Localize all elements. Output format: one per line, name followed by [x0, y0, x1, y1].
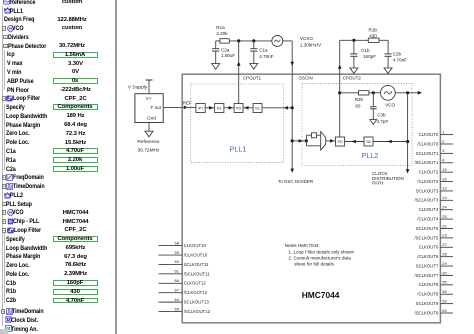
node feedback junction [406, 140, 409, 143]
block IP1 [196, 104, 205, 113]
mux selector [321, 132, 326, 151]
svg-text:SCLKOUT13: SCLKOUT13 [184, 300, 210, 305]
ground C2b [384, 68, 392, 74]
svg-text:CLKOUT12: CLKOUT12 [184, 281, 207, 286]
svg-text:V Supply: V Supply [128, 84, 148, 90]
svg-text:SCLKOUT3: SCLKOUT3 [416, 188, 439, 193]
arrow mux to PD2 [330, 139, 334, 143]
pin 14 /SCLKOUT3 [415, 195, 453, 203]
pin 24 CLKOUT4 [419, 205, 453, 213]
block N2 [364, 137, 373, 146]
block divider R2 [312, 133, 317, 138]
svg-text:1. Loop Filter details only sh: 1. Loop Filter details only shown [288, 249, 354, 254]
svg-text:29: 29 [442, 261, 447, 266]
svg-text:C2a: C2a [221, 47, 230, 52]
arrow into REF pin [184, 106, 188, 110]
arrow into N2 [388, 140, 392, 144]
pin 29 SCLKOUT7 [416, 261, 453, 269]
block PD2 [336, 137, 345, 146]
svg-text:R1b: R1b [369, 27, 378, 32]
wire REF to IP1 [184, 106, 196, 108]
svg-text:430: 430 [369, 33, 377, 38]
capacitor C2a [212, 41, 219, 64]
svg-text:/SCLKOUT9: /SCLKOUT9 [415, 310, 439, 315]
svg-text:67: 67 [175, 288, 180, 293]
node CPOUT1 junction [237, 39, 240, 42]
wire N2 to PD2 [345, 141, 364, 143]
capacitor C2b [385, 40, 392, 68]
svg-text:PATH: PATH [372, 181, 383, 186]
svg-text:CLKOUT4: CLKOUT4 [419, 207, 439, 212]
svg-text:4.7pF: 4.7pF [377, 119, 389, 124]
pin 15 CLKOUT2 [419, 167, 453, 175]
pin 28 /CLKOUT6 [417, 251, 453, 259]
svg-text:CLKOUT6: CLKOUT6 [419, 245, 439, 250]
svg-text:sheet for full details: sheet for full details [294, 262, 334, 267]
svg-text:R1: R1 [217, 107, 222, 111]
chip HMC7044 outline [182, 74, 440, 323]
pin 1 CLKOUT0 [419, 129, 453, 137]
svg-text:C1a: C1a [259, 47, 268, 52]
svg-text:64: 64 [175, 297, 180, 302]
svg-text:V+: V+ [146, 96, 152, 101]
svg-text:/SCLKOUT1: /SCLKOUT1 [415, 160, 439, 165]
pin 59 /CLKOUT10 [159, 250, 208, 258]
wire CPOUT2 vertical [339, 40, 341, 137]
svg-text:25: 25 [442, 214, 447, 219]
pin 58 CLKOUT10 [159, 240, 207, 248]
svg-text:IP1: IP1 [198, 107, 203, 111]
oscillator VCO [381, 85, 396, 100]
svg-text:SCLKOUT7: SCLKOUT7 [416, 263, 439, 268]
wire CPOUT1 vertical [238, 41, 240, 104]
svg-text:SCLKOUT1: SCLKOUT1 [416, 151, 439, 156]
pin 22 SCLKOUT5 [416, 223, 453, 231]
wire feedback to N2 [373, 141, 408, 143]
svg-text:/SCLKOUT7: /SCLKOUT7 [415, 273, 439, 278]
svg-text:4: 4 [442, 158, 445, 163]
block N1 [253, 104, 262, 113]
arrow OSCIN down [290, 62, 294, 66]
svg-text:2. Consult manufacturer's data: 2. Consult manufacturer's data [288, 256, 351, 261]
wire R1 to PD [224, 107, 234, 109]
node CPOUT2-R2b junction [338, 91, 341, 94]
svg-text:22: 22 [442, 223, 447, 228]
svg-text:80: 80 [355, 103, 361, 108]
svg-text:15: 15 [442, 167, 447, 172]
svg-text:CLKOUT2: CLKOUT2 [419, 170, 439, 175]
pin 55 CLKOUT8 [419, 280, 453, 288]
ground reference [145, 131, 153, 137]
wire loop filter 2 horizontal [340, 39, 369, 41]
pin 65 /SCLKOUT13 [159, 306, 211, 314]
svg-text:VCO: VCO [385, 103, 395, 108]
svg-text:Reference: Reference [137, 139, 159, 145]
svg-text:HMC7044: HMC7044 [302, 290, 340, 300]
svg-text:53: 53 [442, 298, 447, 303]
svg-text:61: 61 [175, 269, 180, 274]
svg-text:66: 66 [175, 278, 180, 283]
PLL2 dotted boundary [302, 84, 412, 166]
svg-text:24: 24 [442, 205, 447, 210]
wire R1b to C2b [379, 39, 388, 41]
svg-text:R2b: R2b [355, 97, 364, 102]
wire VCXO to OSCIN [283, 41, 292, 74]
node C1a junction [252, 39, 255, 42]
svg-text:4.70nF: 4.70nF [393, 58, 407, 63]
arrow N2 to PD2 [352, 140, 356, 144]
svg-text:Gnd: Gnd [147, 115, 156, 120]
svg-text:3: 3 [442, 148, 445, 153]
arrow clock distribution down [406, 169, 410, 173]
svg-text:/SCLKOUT13: /SCLKOUT13 [184, 309, 211, 314]
wire N1 to PD [243, 107, 253, 109]
svg-text:/CLKOUT2: /CLKOUT2 [417, 179, 439, 184]
svg-text:2.20k: 2.20k [216, 31, 228, 36]
pin 67 /CLKOUT12 [159, 288, 208, 296]
node C3b junction [372, 91, 375, 94]
svg-text:2: 2 [442, 139, 445, 144]
ground C2a [212, 64, 220, 70]
svg-text:N2: N2 [366, 140, 371, 144]
arrow VCO output right [418, 91, 422, 95]
svg-text:VCXO: VCXO [300, 36, 313, 41]
svg-text:PD: PD [338, 140, 343, 144]
wire OSCIN to mux [292, 140, 306, 142]
wire REF input [163, 106, 184, 108]
svg-text:27: 27 [442, 242, 447, 247]
svg-text:13: 13 [442, 186, 447, 191]
oscillator VCXO [272, 35, 283, 46]
svg-text:55: 55 [442, 280, 447, 285]
svg-text:23: 23 [442, 233, 447, 238]
svg-text:54: 54 [442, 308, 447, 313]
svg-text:28: 28 [442, 251, 447, 256]
svg-text:/CLKOUT8: /CLKOUT8 [417, 292, 439, 297]
ground C3b [370, 120, 377, 125]
svg-text:N1: N1 [255, 107, 260, 111]
svg-text:/CLKOUT12: /CLKOUT12 [184, 290, 208, 295]
svg-text:65: 65 [175, 306, 180, 311]
svg-text:R1a: R1a [216, 25, 225, 30]
pin 16 /CLKOUT2 [417, 176, 453, 184]
svg-text:To OSC DIVIDER: To OSC DIVIDER [278, 179, 314, 184]
pin 60 SCLKOUT11 [159, 259, 210, 267]
svg-text:160pF: 160pF [363, 54, 376, 59]
svg-text:PD: PD [236, 107, 241, 111]
pin 23 /SCLKOUT5 [415, 233, 453, 241]
block R1 [215, 104, 224, 113]
svg-text:CLKOUT8: CLKOUT8 [419, 282, 439, 287]
svg-text:1.30kHz/V: 1.30kHz/V [300, 43, 322, 48]
capacitor C3b [370, 93, 377, 120]
svg-text:4.70nF: 4.70nF [259, 54, 273, 59]
wire OSCIN vertical [291, 74, 293, 170]
svg-text:56: 56 [442, 289, 447, 294]
svg-text:60: 60 [175, 259, 180, 264]
wire IP1 to R1 [205, 107, 214, 109]
svg-text:30.72MHz: 30.72MHz [138, 148, 160, 154]
svg-text:C2b: C2b [393, 51, 402, 56]
svg-text:PLL2: PLL2 [362, 151, 379, 160]
svg-text:PLL1: PLL1 [230, 145, 247, 154]
wire CPOUT2 to R2b [340, 92, 359, 94]
resistor R1b [368, 38, 379, 42]
svg-text:1.00uF: 1.00uF [221, 53, 235, 58]
svg-text:/SCLKOUT11: /SCLKOUT11 [184, 271, 211, 276]
wire mux upper branch [306, 135, 320, 141]
svg-text:/CLKOUT4: /CLKOUT4 [417, 217, 439, 222]
svg-text:14: 14 [442, 195, 447, 200]
PLL1 dotted boundary [191, 84, 284, 163]
reference oscillator X1 box [135, 94, 163, 123]
pin 13 SCLKOUT3 [416, 186, 453, 194]
svg-text:/CLKOUT0: /CLKOUT0 [417, 141, 439, 146]
wire loop filter 1 horizontal [216, 40, 220, 42]
pin 25 /CLKOUT4 [417, 214, 453, 222]
capacitor C1b [350, 40, 357, 68]
wire reference ground [148, 123, 150, 132]
capacitor C1a [250, 41, 257, 64]
svg-text:1: 1 [442, 129, 445, 134]
svg-text:16: 16 [442, 176, 447, 181]
resistor R1a [220, 39, 229, 43]
svg-text:OSCIN: OSCIN [299, 76, 313, 81]
pin 30 /SCLKOUT7 [415, 270, 453, 278]
arrow to OSC divider [290, 169, 294, 173]
power symbol V Supply bar [146, 80, 153, 94]
svg-text:C1b: C1b [361, 48, 370, 53]
svg-text:C3b: C3b [377, 112, 386, 117]
pin 53 SCLKOUT9 [416, 298, 453, 306]
arrow into N1 [284, 106, 288, 110]
svg-text:SCLKOUT11: SCLKOUT11 [184, 262, 209, 267]
arrow R1 to PD [229, 106, 233, 110]
wire mux lower branch [306, 141, 320, 146]
block PD1 [234, 104, 243, 113]
node OSCIN-N1 junction [291, 106, 294, 109]
svg-text:/SCLKOUT5: /SCLKOUT5 [415, 235, 439, 240]
pin 66 CLKOUT12 [159, 278, 207, 286]
pin 4 /SCLKOUT1 [415, 158, 453, 166]
pin 2 /CLKOUT0 [417, 139, 453, 147]
svg-text:CLKOUT0: CLKOUT0 [419, 132, 439, 137]
pin 27 CLKOUT6 [419, 242, 453, 250]
node mux input junction [305, 139, 308, 142]
node C1b junction [352, 39, 355, 42]
ground C1a [250, 64, 258, 70]
resistor R2b [359, 91, 369, 95]
node OSCIN-PLL2 junction [291, 139, 294, 142]
pin 64 SCLKOUT13 [159, 297, 210, 305]
arrow CPOUT1 up [237, 62, 241, 66]
svg-text:58: 58 [175, 240, 180, 245]
wire clock distribution vertical [407, 93, 409, 170]
pin 61 /SCLKOUT11 [159, 269, 211, 277]
svg-text:/CLKOUT6: /CLKOUT6 [417, 254, 439, 259]
pin 54 /SCLKOUT9 [415, 308, 453, 316]
wire mux to PD2 [326, 140, 336, 142]
svg-text:Notes HMC7044:: Notes HMC7044: [285, 243, 320, 248]
pin 56 /CLKOUT8 [417, 289, 453, 297]
svg-text:30: 30 [442, 270, 447, 275]
wire R1a to VCXO [229, 40, 271, 42]
svg-text:CPOUT2: CPOUT2 [343, 76, 362, 81]
wire VCO output [395, 92, 418, 94]
node VCO output junction [406, 91, 409, 94]
arrow IP1 to R1 [209, 106, 213, 110]
arrow into PLL2 [299, 139, 303, 143]
svg-text:F out: F out [151, 105, 162, 110]
svg-text:SCLKOUT9: SCLKOUT9 [416, 301, 439, 306]
wire OSCIN to N1 [262, 107, 292, 109]
pin 3 SCLKOUT1 [416, 148, 453, 156]
svg-text:/SCLKOUT3: /SCLKOUT3 [415, 198, 439, 203]
svg-text:59: 59 [175, 250, 180, 255]
arrow N1 to PD [244, 106, 248, 110]
svg-text:/CLKOUT10: /CLKOUT10 [184, 252, 208, 257]
wire R2b to VCO [369, 92, 380, 94]
ground C1b [350, 68, 358, 74]
svg-text:CLKOUT10: CLKOUT10 [184, 243, 207, 248]
svg-text:SCLKOUT5: SCLKOUT5 [416, 226, 439, 231]
arrow CPOUT2 up [338, 65, 342, 69]
svg-text:CPOUT1: CPOUT1 [243, 76, 262, 81]
